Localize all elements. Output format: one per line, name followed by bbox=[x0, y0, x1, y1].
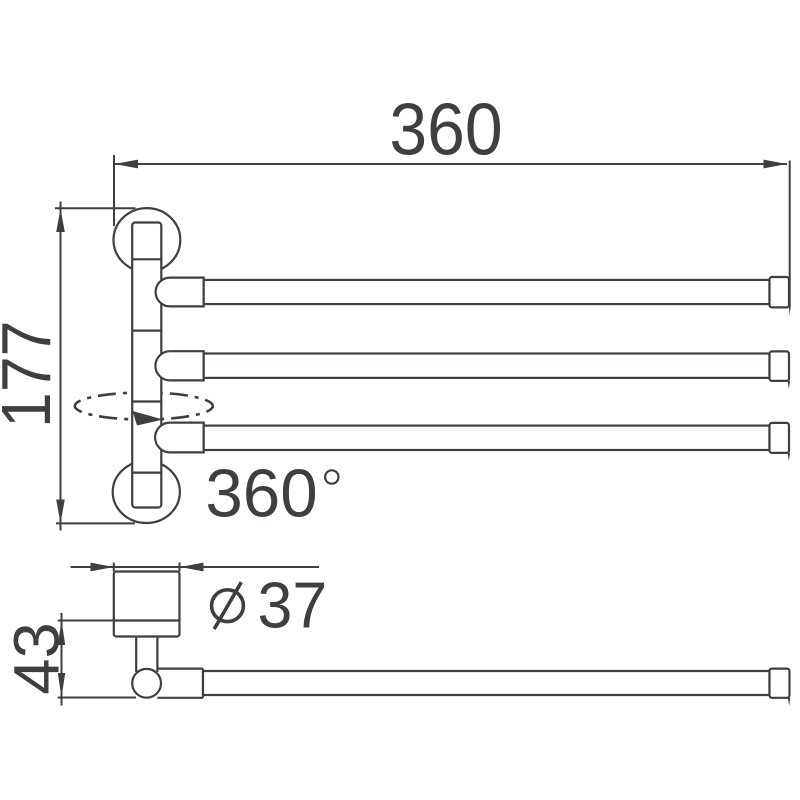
svg-text:177: 177 bbox=[0, 321, 66, 428]
svg-text:37: 37 bbox=[258, 568, 328, 641]
svg-text:43: 43 bbox=[0, 622, 72, 695]
svg-text:360: 360 bbox=[389, 88, 502, 170]
svg-text:360: 360 bbox=[205, 456, 317, 531]
